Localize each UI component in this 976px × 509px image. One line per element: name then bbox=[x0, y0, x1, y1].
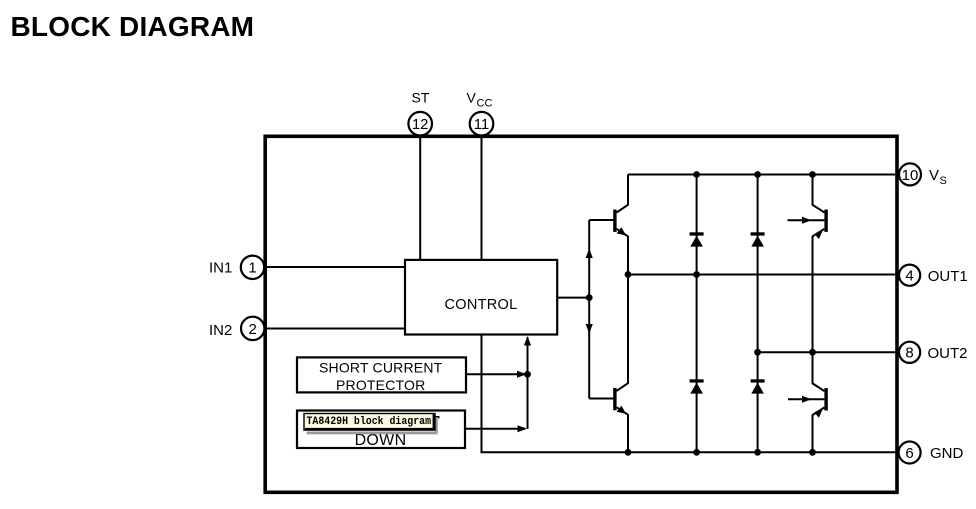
pin VCC label bbox=[467, 90, 493, 110]
svg-text:TA8429H block diagram: TA8429H block diagram bbox=[307, 416, 432, 428]
svg-text:8: 8 bbox=[905, 345, 913, 362]
pin VS label bbox=[929, 167, 947, 187]
block CONTROL bbox=[405, 260, 557, 335]
svg-text:S: S bbox=[940, 175, 947, 187]
wire base Q1 bbox=[589, 219, 613, 221]
rail OUT1 bbox=[628, 274, 897, 276]
wire VCC line CONTROL bottom to GND rail elbow bbox=[482, 335, 898, 453]
svg-text:OUT2: OUT2 bbox=[928, 345, 968, 362]
wire THERMAL SHUT DOWN output bbox=[465, 428, 525, 430]
junction dot VS/Q2 collector bbox=[809, 171, 816, 178]
diode D1 bbox=[690, 232, 704, 246]
block SHORT CURRENT PROTECTOR bbox=[297, 357, 466, 393]
tooltip overlay TA8429H block diagram bbox=[304, 414, 438, 435]
svg-text:12: 12 bbox=[412, 116, 429, 133]
transistor Q3 lower-left NPN bbox=[613, 275, 628, 453]
svg-text:PROTECTOR: PROTECTOR bbox=[336, 377, 425, 393]
wire ST pin12 to CONTROL top bbox=[419, 136, 421, 261]
arrowhead SCP wire bbox=[517, 371, 527, 378]
svg-text:V: V bbox=[467, 90, 477, 106]
svg-text:IN1: IN1 bbox=[209, 259, 232, 276]
svg-text:V: V bbox=[929, 167, 939, 184]
diode leg D1/D3 vertical wire bbox=[696, 175, 698, 453]
junction dot VS/D1 bbox=[693, 171, 700, 178]
diode D4 bbox=[751, 379, 765, 393]
svg-text:4: 4 bbox=[905, 268, 913, 285]
junction dot GND/Q4 emitter bbox=[809, 449, 816, 456]
pin 8 circle (OUT2) bbox=[899, 342, 920, 363]
junction dot GND/Q3 emitter bbox=[625, 449, 632, 456]
svg-text:6: 6 bbox=[905, 445, 913, 462]
svg-text:CC: CC bbox=[477, 98, 493, 110]
wire IN2 to CONTROL left bbox=[265, 328, 406, 330]
transistor Q2 upper-right PNP bbox=[788, 175, 828, 353]
pin 11 circle (VCC) bbox=[470, 112, 494, 136]
transistor Q1 upper-left NPN bbox=[613, 175, 628, 275]
svg-text:DOWN: DOWN bbox=[355, 432, 407, 449]
svg-text:10: 10 bbox=[902, 167, 919, 184]
wire base Q3 bbox=[589, 398, 613, 400]
svg-text:GND: GND bbox=[930, 445, 964, 462]
wire IN1 to CONTROL left bbox=[265, 266, 406, 268]
arrowhead down on drive line bbox=[586, 324, 593, 334]
block THERMAL SHUT DOWN bbox=[297, 411, 465, 450]
pin 10 circle (VS) bbox=[899, 163, 921, 185]
svg-text:SHORT CURRENT: SHORT CURRENT bbox=[319, 359, 443, 375]
arrowhead up on drive line bbox=[586, 249, 593, 259]
pin 1 circle (IN1) bbox=[241, 256, 264, 279]
junction dot VS/D2 bbox=[754, 171, 761, 178]
wire drive line vertical bbox=[588, 220, 590, 399]
IC outer boundary box bbox=[265, 136, 897, 492]
junction dot OUT1/Q1 emitter bbox=[625, 271, 632, 278]
svg-text:2: 2 bbox=[249, 321, 257, 338]
svg-text:11: 11 bbox=[474, 116, 490, 133]
junction dot OUT1/D1 bbox=[693, 271, 700, 278]
pin 2 circle (IN2) bbox=[241, 317, 264, 340]
rail VS bbox=[628, 174, 897, 176]
pin 12 circle (ST) bbox=[408, 112, 432, 136]
junction dot OUT2/Q2 emitter bbox=[809, 349, 816, 356]
diode leg D2/D4 vertical wire bbox=[757, 175, 759, 453]
pin 6 circle (GND) bbox=[899, 442, 921, 464]
arrowhead DOWN wire bbox=[518, 425, 528, 432]
svg-text:OUT1: OUT1 bbox=[928, 268, 968, 285]
junction dot GND/D3 bbox=[693, 449, 700, 456]
svg-text:CONTROL: CONTROL bbox=[445, 297, 518, 313]
wire SHORT CURRENT PROTECTOR output bbox=[466, 373, 525, 375]
hidden text remnant T bbox=[435, 416, 439, 418]
wire protector line to CONTROL bottom bbox=[527, 337, 529, 429]
svg-text:BLOCK DIAGRAM: BLOCK DIAGRAM bbox=[11, 11, 255, 42]
svg-text:IN2: IN2 bbox=[209, 322, 232, 339]
junction dot GND/D4 bbox=[754, 449, 761, 456]
pin 4 circle (OUT1) bbox=[899, 265, 920, 286]
svg-text:1: 1 bbox=[248, 260, 256, 277]
diode D3 bbox=[690, 379, 704, 393]
junction dot OUT2/D2 bbox=[754, 349, 761, 356]
junction dot control output bbox=[586, 294, 593, 301]
arrowhead up into CONTROL bbox=[524, 336, 531, 346]
wire VCC pin11 to CONTROL top bbox=[481, 136, 483, 261]
wire CONTROL right output bbox=[558, 297, 590, 299]
rail OUT2 bbox=[758, 351, 897, 353]
transistor Q4 lower-right PNP bbox=[788, 352, 828, 452]
diode D2 bbox=[751, 232, 765, 246]
svg-text:ST: ST bbox=[411, 90, 429, 106]
junction dot SCP line bbox=[524, 371, 531, 378]
